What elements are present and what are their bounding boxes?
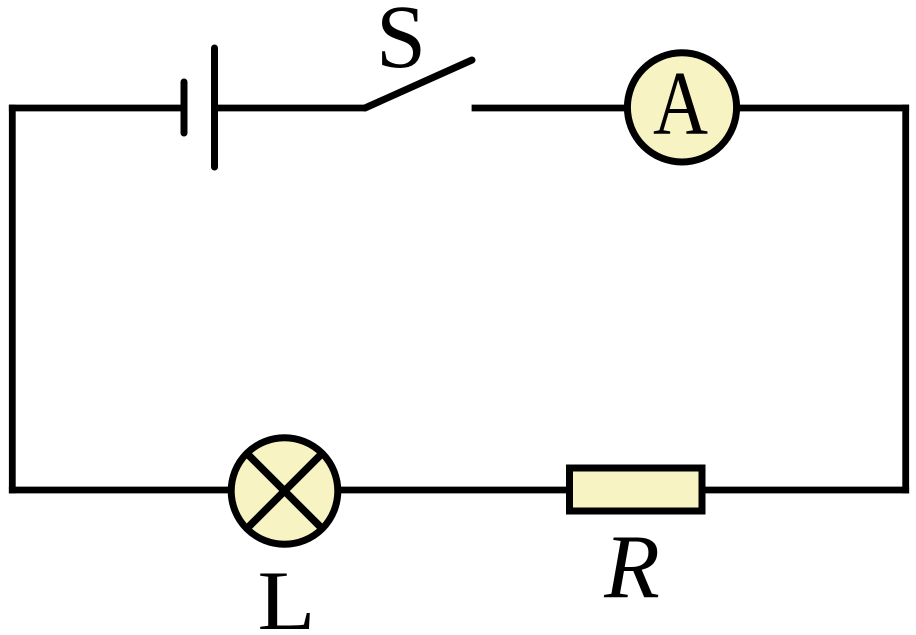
battery cell short plate (negative terminal) <box>181 82 188 133</box>
svg-text:S: S <box>376 0 426 87</box>
wire top-left: battery negative plate to top-left corner <box>12 105 181 112</box>
wire right side vertical <box>902 108 909 490</box>
svg-text:R: R <box>603 516 660 617</box>
battery cell long plate (positive terminal) <box>211 48 218 167</box>
switch S lever arm (open) <box>365 60 472 108</box>
wire left side vertical <box>9 108 16 490</box>
resistor R box <box>570 468 703 511</box>
wire bottom: left corner through lamp and resistor to right corner <box>12 487 905 494</box>
lamp L cross diagonal 2 <box>247 453 322 528</box>
lamp L cross diagonal 1 <box>247 453 322 528</box>
wire top-right: switch fixed contact through ammeter to top-right corner <box>475 105 906 112</box>
svg-text:A: A <box>653 53 708 154</box>
lamp L body circle <box>231 438 338 545</box>
svg-text:L: L <box>258 554 316 635</box>
ammeter A body circle <box>627 53 736 162</box>
wire: battery positive plate to switch pivot <box>218 105 366 112</box>
